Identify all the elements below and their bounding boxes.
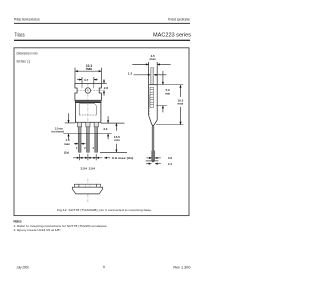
svg-text:3.7: 3.7: [84, 78, 89, 82]
svg-text:2.4: 2.4: [168, 162, 172, 166]
svg-text:max: max: [149, 57, 155, 61]
dim 2.4: [146, 162, 172, 166]
svg-text:Philips Semiconductors: Philips Semiconductors: [14, 18, 40, 22]
centerline: [87, 179, 89, 203]
dim 10.3 max text: [86, 64, 93, 71]
tab strip top view: [74, 184, 100, 187]
svg-text:max: max: [64, 142, 70, 146]
svg-text:not tinned: not tinned: [51, 130, 64, 134]
centerline through body: [87, 103, 89, 123]
dim 1.3 max lead width: [64, 138, 86, 154]
side view tab hatch section: [150, 87, 153, 107]
svg-text:1.3: 1.3: [128, 71, 133, 75]
svg-text:Triacs: Triacs: [15, 32, 26, 38]
mounting hole: [85, 88, 90, 93]
dim 10.3 line: [75, 70, 102, 72]
svg-text:Product specification: Product specification: [168, 18, 190, 22]
dim 1.3 tab thickness: [128, 71, 167, 76]
front view tab outline: [75, 83, 102, 100]
dim 2.8: [101, 79, 108, 96]
svg-text:(2x): (2x): [64, 150, 69, 154]
hidden edge dashed: [148, 95, 150, 115]
dim 10.3 max (side): [156, 85, 184, 125]
svg-text:July 2000: July 2000: [17, 265, 29, 269]
slot lines on tab: [81, 83, 83, 88]
tinning line across leads: [64, 133, 112, 135]
dim 3.2 (right): [101, 116, 125, 139]
lead 3: [94, 122, 98, 152]
svg-text:max: max: [178, 102, 184, 106]
svg-text:Rev 1.300: Rev 1.300: [173, 265, 190, 269]
svg-text:0.6: 0.6: [168, 156, 172, 160]
figure box: [14, 48, 189, 216]
dim 0.9 max (3x) leader: [104, 156, 133, 160]
pitch dim 2.54: [73, 154, 102, 171]
svg-text:2. Epoxy meets UL94 V0 at 1/8": 2. Epoxy meets UL94 V0 at 1/8".: [14, 228, 62, 232]
svg-text:min: min: [165, 91, 170, 95]
svg-text:2.54: 2.54: [89, 166, 95, 170]
slot extension lines: [81, 77, 83, 88]
header rule 1: [14, 22, 190, 25]
lead hatch rungs: [78, 129, 97, 149]
dim 3.2 not tinned (left): [51, 113, 75, 139]
dim 5.9 min: [153, 71, 183, 112]
header rule 2: [14, 40, 190, 41]
dim 4.5 max: [132, 54, 170, 66]
side view lead: [152, 126, 154, 162]
front view body: [76, 103, 101, 123]
dim 10.3 extension lines: [74, 68, 76, 84]
dark band tab/body joint: [75, 100, 101, 102]
svg-text:MAC223 series: MAC223 series: [153, 32, 192, 38]
pin numbers: [76, 146, 95, 150]
side view tab: [151, 68, 154, 85]
svg-text:2.8: 2.8: [104, 86, 109, 90]
seating line: [146, 160, 159, 162]
svg-text:0.9 max (3x): 0.9 max (3x): [112, 156, 134, 160]
side view body: [149, 62, 158, 125]
dim 0.6 lead thickness: [146, 151, 172, 161]
body top view: [72, 187, 102, 194]
lead 2: [86, 122, 90, 152]
svg-text:Dimensions in mm: Dimensions in mm: [17, 52, 38, 56]
lead 1: [78, 122, 82, 152]
svg-text:max: max: [86, 67, 93, 71]
svg-text:min: min: [114, 138, 120, 142]
svg-text:3.2: 3.2: [103, 127, 107, 131]
dim 13.5 min: [100, 123, 127, 152]
svg-text:Net Mass: 2 g: Net Mass: 2 g: [17, 59, 31, 63]
svg-text:6: 6: [103, 265, 105, 269]
svg-text:Fig.12. SOT78 (TO220AB); pin: Fig.12. SOT78 (TO220AB); pin 1 connected…: [57, 208, 152, 212]
hole crosshair horizontal: [77, 90, 105, 92]
dim 3.7 arrows: [77, 79, 82, 81]
centerline vertical: [87, 84, 89, 153]
svg-text:2.54: 2.54: [81, 166, 87, 170]
body inner lines: [78, 104, 80, 115]
